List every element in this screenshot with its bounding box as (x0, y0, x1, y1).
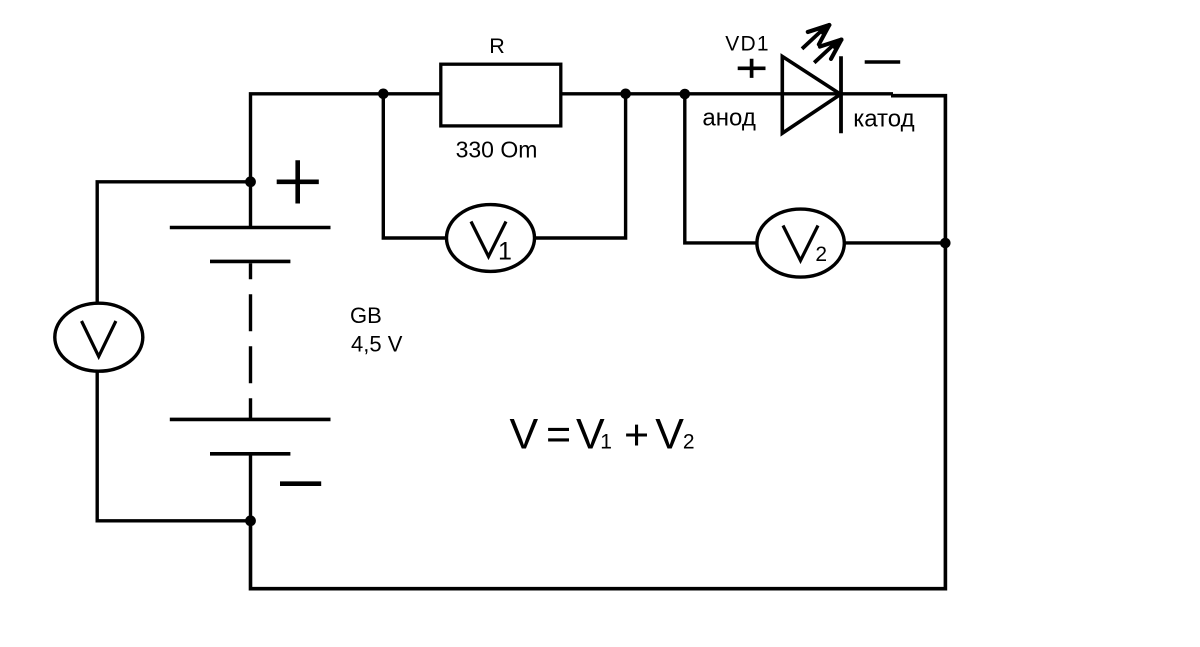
LED arrow 2 shaft (814, 42, 836, 62)
svg-text:1: 1 (498, 238, 512, 266)
LED plus sign (738, 59, 766, 78)
wire battery bottom lead (249, 454, 252, 521)
battery GB plate short top (210, 260, 290, 264)
svg-text:1: 1 (600, 431, 612, 454)
LED arrow 1 head (808, 25, 830, 44)
battery minus sign (280, 481, 321, 486)
node V1 branch left junction (378, 89, 389, 100)
voltmeter V2 ellipse (757, 209, 844, 277)
node V2 right junction (940, 238, 951, 249)
svg-text:анод: анод (702, 105, 755, 132)
svg-text:катод: катод (853, 105, 914, 132)
svg-text:GB: GB (350, 303, 382, 328)
wire top right jog and right/bottom loop (251, 96, 946, 589)
node V1 branch right junction (620, 89, 631, 100)
svg-text:2: 2 (683, 431, 695, 454)
wire V1 branch left (383, 94, 447, 238)
battery GB plate short bottom (210, 452, 290, 456)
wire V2 branch left (685, 94, 757, 243)
svg-text:2: 2 (815, 243, 827, 266)
svg-text:4,5 V: 4,5 V (351, 331, 403, 356)
voltmeter V ellipse (55, 303, 143, 371)
voltmeter V letter (82, 321, 116, 357)
svg-text:VD1: VD1 (725, 33, 769, 56)
svg-text:=: = (546, 411, 571, 459)
wire V1 branch right (534, 94, 625, 238)
equation V = V1 + V2 (510, 411, 695, 460)
wire top and left vertical (251, 94, 894, 228)
LED arrow 2 head (820, 40, 842, 59)
node + terminal junction (245, 176, 256, 187)
svg-text:V: V (655, 411, 684, 459)
svg-text:R: R (489, 34, 505, 58)
node - terminal junction (245, 515, 256, 526)
voltmeter V2 letter (783, 226, 818, 261)
svg-text:+: + (624, 412, 649, 460)
wire voltmeter V branch upper (97, 182, 250, 304)
voltmeter V1 ellipse (447, 205, 535, 272)
voltmeter V1 letter (471, 222, 506, 257)
battery GB plate long bottom (170, 418, 331, 422)
battery dashed middle link (249, 263, 252, 419)
wire V2 branch right (844, 241, 945, 244)
battery GB plate long top (170, 226, 331, 230)
battery plus sign (277, 160, 319, 203)
LED arrow 1 shaft (802, 28, 824, 48)
wire voltmeter V branch lower (97, 370, 250, 521)
resistor R body (441, 64, 561, 126)
node V2 branch left junction (680, 89, 691, 100)
svg-text:330 Om: 330 Om (456, 136, 538, 162)
LED VD1 cathode bar (839, 56, 843, 133)
svg-text:V: V (510, 411, 539, 459)
LED minus sign (865, 60, 901, 64)
LED VD1 triangle anode (782, 56, 840, 133)
